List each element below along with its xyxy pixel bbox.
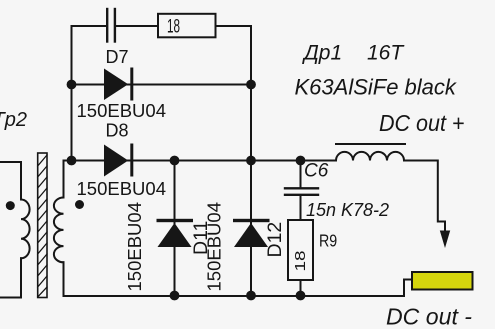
- capacitor C6 top plate: [285, 187, 318, 189]
- wire: D11 branch: [174, 161, 176, 296]
- wire: D8 row: [64, 160, 337, 162]
- svg-text:K63AlSiFe black: K63AlSiFe black: [295, 74, 457, 99]
- svg-text:18: 18: [167, 17, 180, 38]
- diode D7 cathode bar: [130, 68, 133, 101]
- svg-text:18: 18: [293, 251, 309, 272]
- node: right rail / bottom rail: [246, 291, 256, 301]
- transformer Tp2 secondary winding: [54, 198, 64, 263]
- diode D11 cathode bar: [157, 219, 194, 222]
- node: right rail / D7 row: [246, 80, 256, 90]
- svg-text:16T: 16T: [367, 42, 405, 65]
- svg-text:DC out +: DC out +: [379, 110, 465, 136]
- transformer Tp2 secondary lead top: [64, 161, 72, 198]
- node: D11 bottom: [170, 291, 180, 301]
- polarity dot primary: [6, 201, 15, 210]
- wire: resistor to right rail: [217, 25, 252, 27]
- svg-text:15n K78-2: 15n K78-2: [306, 200, 389, 220]
- svg-text:D7: D7: [106, 47, 129, 67]
- svg-text:150EBU04: 150EBU04: [77, 178, 166, 199]
- node: left rail / D8 row: [67, 156, 77, 166]
- node: C6 top: [296, 156, 306, 166]
- right rail: [250, 26, 252, 296]
- snubber capacitor top - left plate: [106, 9, 108, 42]
- shunt plate (yellow): [412, 272, 473, 290]
- node: D11 top: [170, 156, 180, 166]
- left rail: [71, 26, 73, 161]
- wire: D7 row: [72, 84, 252, 86]
- transformer core: [38, 153, 47, 298]
- wire: left rail top corner to capacitor: [72, 25, 107, 27]
- arrow head DC out +: [440, 231, 450, 249]
- svg-text:150EBU04: 150EBU04: [204, 202, 225, 291]
- wire: C6/R9 branch stubs: [300, 161, 302, 297]
- resistor 18 (snubber, top): [158, 14, 216, 38]
- polarity dot secondary: [75, 200, 84, 209]
- diode D12 cathode bar: [233, 219, 270, 222]
- bottom rail: [64, 280, 413, 297]
- svg-text:D12: D12: [264, 222, 286, 258]
- capacitor C6 bottom plate: [285, 194, 318, 196]
- svg-text:D8: D8: [106, 121, 129, 141]
- transformer Tp2 secondary lead bottom: [63, 262, 65, 296]
- diode D8 body: [104, 145, 128, 177]
- svg-text:150EBU04: 150EBU04: [77, 100, 166, 121]
- inductor Dr1 winding: [336, 152, 404, 161]
- snubber capacitor top - right plate: [114, 9, 116, 42]
- transformer Tp2 primary lead top: [0, 162, 21, 200]
- svg-text:R9: R9: [319, 230, 337, 250]
- wire: inductor to corner: [404, 161, 445, 237]
- svg-text:150EBU04: 150EBU04: [124, 202, 145, 291]
- node: left rail / D7 row: [67, 80, 77, 90]
- svg-text:C6: C6: [304, 161, 329, 182]
- node: C6/R9 bottom: [296, 291, 306, 301]
- resistor R9 body: [288, 220, 313, 280]
- diode D11 body: [158, 223, 192, 247]
- transformer Tp2 primary lead bottom: [0, 258, 21, 297]
- svg-text:DC out -: DC out -: [386, 304, 472, 329]
- transformer Tp2 primary winding: [21, 200, 30, 259]
- diode D12 body: [234, 223, 268, 247]
- svg-text:Tp2: Tp2: [0, 109, 27, 131]
- core hatching: [38, 155, 47, 297]
- wire: capacitor to resistor: [116, 25, 157, 27]
- node: right rail / D8 row: [246, 156, 256, 166]
- inductor Dr1 core line: [336, 143, 405, 145]
- diode D8 cathode bar: [130, 144, 133, 177]
- diode D7 body: [104, 69, 128, 101]
- svg-text:Дp1: Дp1: [302, 42, 342, 65]
